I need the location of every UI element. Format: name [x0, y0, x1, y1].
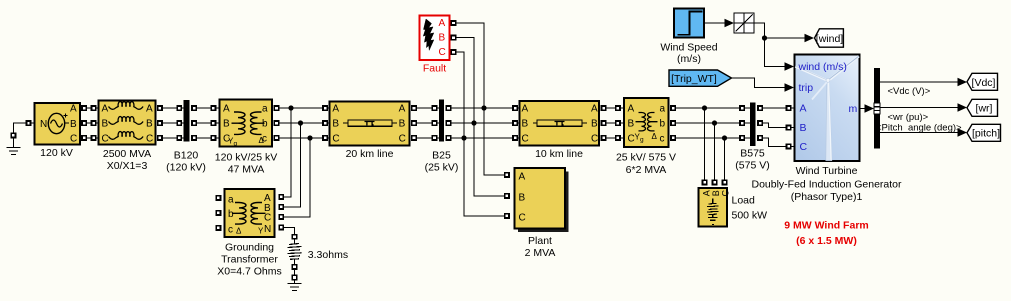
wire saturation to wind node — [754, 23, 765, 38]
junction node A at fault tap — [481, 105, 486, 110]
grounding transformer block — [225, 189, 275, 237]
junction node load A — [702, 105, 707, 110]
svg-text:120 kV: 120 kV — [40, 147, 73, 159]
svg-text:N: N — [40, 119, 47, 130]
pi section symbol — [343, 122, 348, 124]
grounding transformer N port square — [279, 225, 283, 229]
coil phase A — [109, 102, 144, 110]
arrowhead into goto wr — [958, 103, 968, 112]
ground symbol (source neutral) — [7, 138, 21, 155]
svg-text:Plant: Plant — [528, 235, 552, 247]
wire Z-block C to B120 — [158, 136, 162, 140]
svg-text:[Trip_WT]: [Trip_WT] — [671, 73, 717, 85]
plant port squares — [505, 173, 509, 177]
svg-text:B: B — [522, 119, 529, 130]
svg-text:C: C — [591, 134, 598, 145]
svg-text:20 km line: 20 km line — [346, 148, 394, 160]
svg-text:B25: B25 — [432, 150, 451, 162]
wire B120 C to transformer1 — [192, 136, 196, 140]
winding primary — [636, 113, 646, 131]
svg-text:C: C — [800, 141, 808, 153]
svg-text:9 MW Wind Farm: 9 MW Wind Farm — [784, 220, 869, 232]
fault block — [420, 16, 450, 61]
svg-text:C: C — [522, 134, 529, 145]
svg-text:Δ: Δ — [236, 227, 242, 236]
bus selector bar — [874, 68, 880, 149]
arrowhead turbine trip input — [785, 83, 795, 92]
svg-text:[wind]: [wind] — [816, 33, 844, 45]
svg-text:[pitch]: [pitch] — [972, 128, 1000, 140]
saturation block — [734, 13, 754, 33]
wire wind node down to turbine wind input — [765, 38, 785, 67]
svg-text:trip: trip — [799, 82, 814, 94]
svg-text:Fault: Fault — [423, 63, 446, 75]
arrowhead turbine wind input — [785, 62, 795, 71]
svg-text:2 MVA: 2 MVA — [525, 247, 556, 259]
source impedance block 2500 MVA — [99, 101, 156, 145]
svg-text:<Pitch_angle (deg)>: <Pitch_angle (deg)> — [876, 123, 962, 134]
svg-text:500 kW: 500 kW — [732, 209, 768, 221]
wire transformer1 c to 20km line C — [274, 136, 278, 140]
svg-text:[wr]: [wr] — [976, 103, 993, 115]
wire Vdc signal — [880, 81, 958, 83]
junction node wind — [762, 35, 767, 40]
svg-text:b: b — [262, 119, 268, 130]
arrowhead into goto wind — [805, 34, 815, 43]
svg-text:(6 x 1.5 MW): (6 x 1.5 MW) — [796, 235, 857, 247]
wire fault B down to bus node B — [456, 38, 474, 124]
svg-text:wind (m/s): wind (m/s) — [798, 61, 847, 73]
wire 20km line B to B25 — [412, 121, 416, 125]
wire down to grounding transformer A — [284, 108, 292, 197]
junction node load B — [712, 120, 717, 125]
wire transformer1 b to 20km line B — [274, 121, 278, 125]
wire B25 C to 10km line — [446, 136, 450, 140]
wire pitch signal — [880, 132, 958, 134]
goto tag [Vdc] — [967, 73, 998, 90]
wire N square to source edge — [31, 122, 35, 124]
svg-text:a: a — [228, 195, 234, 206]
wire 20km line A to B25 — [412, 106, 416, 110]
wire 10km line C to transformer2 — [601, 136, 605, 140]
wire B120 A to transformer1 — [192, 106, 196, 110]
svg-text:A: A — [519, 172, 526, 183]
turbine hub — [826, 78, 830, 82]
grounding transformer unconnected ports a b c — [216, 196, 220, 200]
winding secondary — [648, 113, 658, 131]
svg-text:B: B — [711, 190, 721, 196]
turbine tower — [826, 81, 832, 161]
svg-text:A: A — [223, 104, 230, 115]
svg-text:A: A — [702, 190, 712, 196]
turbine blade upper right — [828, 56, 859, 81]
arrowhead into goto Vdc — [958, 78, 968, 87]
svg-text:(Phasor Type)1: (Phasor Type)1 — [791, 191, 863, 203]
bus selector input marker — [874, 103, 880, 114]
goto tag [pitch] — [967, 124, 1001, 141]
wire B25 A to 10km line — [446, 106, 450, 110]
wire transformer2 c to B575 — [671, 136, 675, 140]
svg-text:[Vdc]: [Vdc] — [972, 77, 996, 89]
svg-text:B: B — [70, 119, 77, 130]
svg-text:b: b — [228, 209, 234, 220]
pi section symbol — [533, 122, 537, 124]
wire fault C down to bus node C — [456, 52, 464, 138]
wire 10km line A to transformer2 — [601, 106, 605, 110]
svg-text:g: g — [234, 141, 238, 148]
bus B120 — [184, 100, 190, 142]
ground port square — [11, 133, 15, 137]
wire transformer2 a to B575 — [671, 106, 675, 110]
svg-text:A: A — [332, 104, 339, 115]
winding primary — [232, 112, 246, 134]
svg-text:c: c — [660, 134, 665, 145]
wire turbine m to bus selector — [860, 108, 866, 110]
plant block — [515, 168, 566, 229]
svg-text:C: C — [721, 190, 731, 197]
svg-text:120 kV/25 kV: 120 kV/25 kV — [215, 152, 277, 164]
svg-text:Load: Load — [732, 195, 756, 207]
wire source C to Z-block C — [82, 136, 86, 140]
svg-text:C: C — [399, 134, 406, 145]
svg-text:c: c — [228, 225, 233, 236]
wire down to load B — [714, 123, 716, 180]
svg-text:g: g — [640, 137, 644, 144]
svg-text:<wr (pu)>: <wr (pu)> — [888, 112, 929, 123]
svg-text:A: A — [800, 103, 807, 115]
wire down to load A — [704, 108, 706, 180]
wire wind node to goto wind — [765, 37, 806, 39]
coil phase C — [109, 132, 144, 140]
svg-text:B: B — [519, 193, 526, 204]
svg-text:Wind Speed: Wind Speed — [660, 42, 717, 54]
wind speed source block — [674, 9, 704, 38]
svg-text:a: a — [660, 104, 666, 115]
svg-text:(25 kV): (25 kV) — [425, 162, 459, 174]
svg-text:47 MVA: 47 MVA — [228, 164, 265, 176]
goto tag [wr] — [967, 99, 998, 116]
svg-text:m: m — [849, 103, 858, 115]
transformer 120 kV/25 kV 47 MVA — [220, 100, 273, 148]
wire wind speed to saturation — [704, 22, 725, 24]
svg-text:Y: Y — [258, 227, 264, 236]
wire wr signal — [880, 107, 958, 109]
svg-text:A: A — [439, 18, 446, 29]
svg-text:A: A — [102, 104, 109, 115]
svg-text:N: N — [264, 224, 271, 235]
svg-text:a: a — [262, 104, 268, 115]
svg-text:A: A — [628, 104, 635, 115]
svg-text:25 kV/ 575 V: 25 kV/ 575 V — [616, 152, 676, 164]
svg-text:C: C — [264, 213, 271, 224]
turbine blade lower left — [812, 81, 828, 100]
svg-text:2500 MVA: 2500 MVA — [103, 148, 151, 160]
wire resistor to ground — [294, 269, 296, 275]
svg-text:A: A — [591, 104, 598, 115]
plant block shadow — [518, 172, 569, 233]
svg-text:b: b — [660, 119, 666, 130]
svg-text:Δ: Δ — [259, 136, 265, 145]
svg-text:B575: B575 — [740, 148, 765, 160]
wire source A to Z-block A — [82, 106, 86, 110]
wire down to grounding transformer B — [284, 123, 301, 207]
20 km line block — [330, 102, 410, 146]
10 km line block — [520, 101, 600, 146]
svg-text:B: B — [399, 119, 406, 130]
svg-text:(120 kV): (120 kV) — [166, 162, 206, 174]
junction node a (to grounding transformer) — [288, 105, 293, 110]
svg-text:Wind Turbine: Wind Turbine — [796, 165, 858, 177]
arrowhead into bus selector — [865, 104, 875, 113]
transformer 25 kV/575 V 6*2 MVA — [624, 98, 669, 147]
arrowhead into saturation — [725, 19, 735, 28]
svg-text:C: C — [519, 213, 526, 224]
svg-text:C: C — [146, 134, 153, 145]
svg-text:B: B — [591, 119, 598, 130]
svg-text:B: B — [102, 119, 109, 130]
wire transformer2 b to B575 — [671, 121, 675, 125]
wire node A down to plant A — [484, 108, 505, 175]
wire 10km line B to transformer2 — [601, 121, 605, 125]
load port squares — [702, 180, 706, 184]
junction node b — [298, 120, 303, 125]
winding primary — [232, 203, 246, 225]
wire B575 b to turbine B — [758, 121, 762, 125]
wire B575 a to turbine A — [758, 106, 762, 110]
resistor 3.3 ohms — [288, 235, 302, 269]
wire B120 B to transformer1 — [192, 121, 196, 125]
svg-text:B: B — [439, 33, 446, 44]
wire Z-block A to B120 — [158, 106, 162, 110]
svg-text:B: B — [628, 119, 635, 130]
from tag [Trip_WT] — [669, 70, 732, 86]
svg-text:Transformer: Transformer — [221, 254, 278, 266]
svg-text:10 km line: 10 km line — [535, 148, 583, 160]
junction node C at fault tap — [461, 135, 466, 140]
svg-text:B: B — [223, 119, 230, 130]
arrowhead into goto pitch — [958, 128, 968, 137]
svg-text:B120: B120 — [174, 150, 199, 162]
wire transformer1 a to 20km line A — [274, 106, 278, 110]
junction node load C — [722, 135, 727, 140]
wire ground to source N — [14, 123, 27, 133]
svg-text:C: C — [102, 134, 109, 145]
svg-text:B: B — [800, 122, 807, 134]
svg-text:(575 V): (575 V) — [735, 160, 769, 172]
wire down to load C — [724, 138, 726, 180]
svg-text:Doubly-Fed Induction Generator: Doubly-Fed Induction Generator — [752, 179, 903, 191]
ground port square (neutral) — [292, 275, 296, 279]
svg-text:Δ: Δ — [652, 132, 658, 141]
wire node C down to plant C — [464, 138, 505, 216]
wire N to neutral resistor — [284, 228, 295, 235]
winding secondary — [251, 112, 265, 134]
grounding transformer port squares A B C — [279, 195, 283, 199]
winding secondary — [251, 203, 266, 225]
svg-text:B: B — [332, 119, 339, 130]
svg-text:A: A — [522, 104, 529, 115]
bus B575 — [750, 103, 756, 147]
turbine blade left — [795, 67, 828, 81]
svg-text:<Vdc (V)>: <Vdc (V)> — [888, 86, 931, 97]
coil phase B — [109, 117, 144, 125]
wire down to grounding transformer C — [284, 138, 311, 217]
load resistor icon — [712, 199, 714, 204]
wire Z-block B to B120 — [158, 121, 162, 125]
fault port squares — [451, 21, 455, 25]
svg-text:C: C — [70, 134, 77, 145]
wire 20km line C to B25 — [412, 136, 416, 140]
source N port square — [26, 121, 30, 125]
svg-text:C: C — [332, 134, 339, 145]
svg-text:A: A — [70, 104, 77, 115]
junction node c — [307, 135, 312, 140]
wire B575 c to turbine C — [758, 136, 762, 140]
svg-text:3.3ohms: 3.3ohms — [308, 249, 348, 261]
wind turbine DFIG block — [795, 55, 860, 162]
bus B25 — [439, 100, 444, 142]
svg-text:(m/s): (m/s) — [677, 53, 701, 65]
svg-text:X0=4.7 Ohms: X0=4.7 Ohms — [217, 266, 282, 278]
wire fault A down to bus node A — [456, 23, 484, 108]
ground symbol (neutral resistor) — [288, 280, 302, 291]
svg-text:A: A — [399, 104, 406, 115]
wire trip tag to turbine trip input — [732, 78, 785, 88]
wire source B to Z-block B — [82, 121, 86, 125]
svg-text:Grounding: Grounding — [225, 242, 274, 254]
source block 120 kV — [35, 103, 81, 145]
load block 500 kW — [699, 188, 731, 227]
svg-text:6*2 MVA: 6*2 MVA — [626, 164, 667, 176]
wire node B down to plant B — [474, 123, 505, 196]
lightning bolt — [423, 19, 434, 50]
svg-text:X0/X1=3: X0/X1=3 — [107, 160, 148, 172]
svg-text:C: C — [439, 47, 446, 58]
wire B25 B to 10km line — [446, 121, 450, 125]
svg-text:B: B — [146, 119, 153, 130]
goto tag [wind] — [815, 29, 844, 47]
svg-text:A: A — [146, 104, 153, 115]
junction node B at fault tap — [471, 120, 476, 125]
